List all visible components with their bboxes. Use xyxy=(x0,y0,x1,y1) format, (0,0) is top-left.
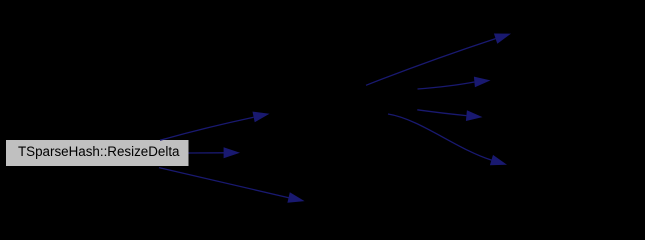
edge from ResizeDelta to hidden callee 2 (horizontal arrow) xyxy=(189,147,241,158)
edge from ResizeDelta to hidden callee 3 (lower arrow) xyxy=(159,168,305,203)
edge from ResizeDelta to hidden callee 1 (upper arrow) xyxy=(160,112,270,141)
edge from hidden node to hidden node (lower-middle right arrow) xyxy=(417,110,482,121)
node box TSparseHash::ResizeDelta xyxy=(6,140,189,166)
edge from hidden callee to hidden node (curved bottom-right arrow) xyxy=(388,114,507,165)
edge from hidden node to hidden node (upper-middle right arrow) xyxy=(418,77,491,89)
node label TSparseHash::ResizeDelta xyxy=(18,144,180,159)
edge from hidden callee to hidden node (long top-right arrow) xyxy=(366,34,511,86)
